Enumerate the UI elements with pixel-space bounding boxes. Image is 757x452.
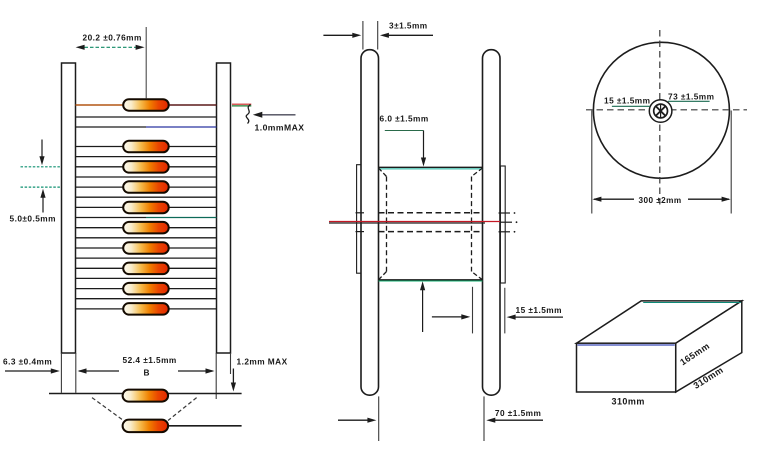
hub hidden edge left (dashed) — [386, 177, 388, 272]
reel right flange — [483, 50, 501, 396]
extension line hub right edge — [472, 287, 474, 334]
wire: empty tape slot lead line 4 — [76, 176, 217, 178]
resistor R5 body — [123, 202, 169, 214]
arrow pointing left to right flange — [495, 419, 543, 421]
detached resistor with lead — [167, 425, 242, 427]
arrow pointing left to tape edge — [516, 316, 564, 318]
svg-text:3±1.5mm: 3±1.5mm — [389, 21, 428, 31]
hub corner dash top-right — [472, 168, 483, 177]
extension line circle right — [730, 111, 732, 214]
arrow left pointing right — [323, 34, 353, 36]
dimension line 300mm right part — [688, 198, 729, 200]
resistor R2 lead wire — [76, 146, 217, 148]
hub outer circle — [649, 100, 672, 123]
extension line right flange inner — [483, 396, 485, 441]
resistor R1 lead wire — [76, 104, 147, 106]
extension line circle left — [591, 111, 593, 214]
svg-text:70 ±1.5mm: 70 ±1.5mm — [495, 408, 541, 418]
extension lines flange thickness — [362, 21, 364, 50]
extension line left strip inner edge — [75, 353, 77, 393]
resistor R10 body — [123, 303, 169, 315]
resistor R9 body — [123, 283, 169, 295]
hub bottom edge — [379, 279, 483, 281]
extension dashed line row 4 — [21, 186, 62, 188]
resistor R8 lead wire — [76, 267, 217, 269]
hub top edge — [379, 166, 483, 168]
resistor R10 lead wire — [76, 308, 217, 310]
svg-text:300 ±2mm: 300 ±2mm — [639, 196, 682, 205]
down arrow to hub top — [423, 131, 425, 159]
left carrier tape strip — [62, 63, 76, 353]
hub corner dash bottom-right — [472, 272, 483, 280]
horizontal centerline (dashed) — [586, 109, 747, 111]
up arrow for 5.0mm pitch — [42, 197, 44, 213]
hub corner dash top-left — [379, 168, 387, 177]
extension line right strip inner edge — [215, 353, 217, 399]
svg-text:310mm: 310mm — [612, 397, 645, 407]
wire: empty tape slot lead line 2 — [76, 126, 147, 128]
wire: empty tape slot lead line 8 — [76, 257, 217, 259]
svg-text:15 ±1.5mm: 15 ±1.5mm — [516, 305, 562, 315]
down arrow for 5.0mm pitch — [41, 140, 43, 158]
wire: empty tape slot lead line 5 — [76, 196, 217, 198]
resistor R3 lead wire — [76, 166, 217, 168]
svg-text:20.2 ±0.76mm: 20.2 ±0.76mm — [83, 33, 142, 43]
blue tint front top edge — [578, 344, 675, 346]
extension line left flange inner — [378, 396, 380, 441]
wire: empty tape slot lead line 7 — [76, 237, 217, 239]
resistor R6 body — [123, 222, 169, 234]
svg-text:6.0 ±1.5mm: 6.0 ±1.5mm — [380, 114, 429, 124]
svg-text:73 ±1.5mm: 73 ±1.5mm — [668, 91, 714, 101]
extension line tape outer edge — [504, 288, 506, 334]
extension line down to first resistor — [145, 27, 147, 99]
dimension line 20.2mm with arrowheads — [79, 46, 141, 48]
up arrow to hub bottom — [420, 281, 425, 290]
leader line under 6.0 label — [385, 130, 424, 132]
reel left flange — [361, 50, 379, 396]
resistor R6 lead wire — [76, 227, 217, 229]
reel centerline (red) — [329, 221, 500, 223]
reel front view outer circle — [593, 42, 729, 178]
arrow 6.3mm pointing right — [5, 370, 51, 372]
teal tint back top edge — [643, 302, 741, 304]
leader line 73mm — [668, 100, 710, 102]
wire: empty tape slot lead line 3 — [76, 156, 217, 158]
carton front face — [577, 343, 676, 392]
dashed fan line left — [92, 398, 124, 421]
squiggle brace at tape edge — [246, 105, 250, 124]
resistor R2 body — [123, 141, 169, 153]
hub hidden edge right (dashed) — [471, 177, 473, 272]
tape layer strip right of right flange — [500, 166, 505, 283]
leader line to hub — [612, 105, 650, 107]
resistor R4 lead wire — [76, 186, 217, 188]
right carrier tape strip — [217, 63, 231, 353]
extension dashed line row 3 — [21, 166, 62, 168]
resistor R8 body — [123, 263, 169, 275]
carton top face — [577, 301, 742, 343]
wire: empty tape slot lead line 10 — [76, 298, 217, 300]
dashed fan line right — [168, 398, 197, 421]
arrow pointing right to left flange — [338, 419, 368, 421]
wire: empty tape slot lead line 9 — [76, 277, 217, 279]
reel centerline (dark) — [329, 222, 485, 224]
centerline dash-dot right — [501, 221, 513, 223]
down arrow 1.2mm — [232, 369, 234, 384]
resistor R7 lead wire — [76, 247, 217, 249]
resistor R9 lead wire — [76, 288, 217, 290]
tape layer strip left of left flange — [357, 165, 362, 274]
resistor R5 lead wire — [76, 206, 217, 208]
hub hole hidden line lower (dashed) — [379, 231, 483, 233]
horizontal arrow to hub edge extension — [432, 316, 462, 318]
tape edge line (bottom detail) — [49, 393, 242, 395]
svg-text:1.2mm MAX: 1.2mm MAX — [237, 357, 288, 367]
extension line left strip outer edge — [60, 353, 62, 393]
carton right face — [676, 301, 742, 392]
lead stub beyond right tape green — [232, 105, 251, 107]
arrow right pointing left — [388, 34, 433, 36]
resistor R1 body — [123, 99, 169, 111]
hub hole circle with cross — [654, 104, 668, 118]
svg-text:B: B — [144, 368, 150, 378]
resistor R4 body — [123, 181, 169, 193]
resistor R7 body — [123, 242, 169, 254]
wire: empty tape slot lead line 1 — [76, 116, 217, 118]
lead stub beyond right tape (1.0mm) red — [232, 103, 251, 105]
vertical centerline (dashed) — [659, 30, 661, 206]
svg-text:6.3 ±0.4mm: 6.3 ±0.4mm — [3, 357, 52, 367]
resistor R3 body — [123, 161, 169, 173]
resistor on tape edge — [123, 390, 169, 402]
svg-text:52.4 ±1.5mm: 52.4 ±1.5mm — [123, 355, 177, 365]
leader arrow for 1.0mmMAX — [261, 114, 296, 116]
dimension arrows 52.4mm — [78, 368, 87, 373]
extension line right strip outer edge — [230, 353, 232, 374]
hub hole hidden line upper (dashed) — [379, 212, 483, 214]
dimension line 300mm left part — [592, 197, 601, 202]
hub corner dash bottom-left — [379, 272, 387, 280]
wire: empty tape slot lead line 6 — [76, 217, 147, 219]
svg-text:15 ±1.5mm: 15 ±1.5mm — [604, 95, 650, 105]
svg-text:5.0±0.5mm: 5.0±0.5mm — [10, 214, 56, 224]
svg-text:1.0mmMAX: 1.0mmMAX — [255, 123, 305, 133]
